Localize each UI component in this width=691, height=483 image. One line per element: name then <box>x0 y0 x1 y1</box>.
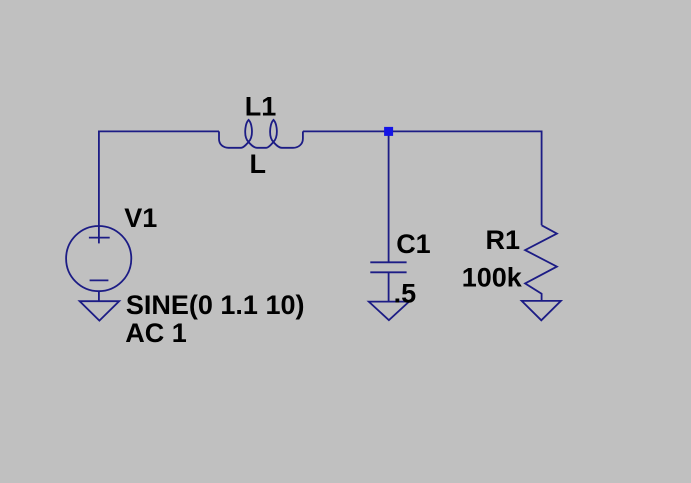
wire capacitor bottom <box>388 272 390 301</box>
svg-text:.5: .5 <box>394 279 417 309</box>
wire top right horizontal <box>303 131 542 225</box>
inductor L1 <box>219 120 303 148</box>
svg-text:L1: L1 <box>245 92 277 122</box>
voltage source V1 circle <box>66 226 131 291</box>
V1 plus sign <box>89 237 110 239</box>
svg-text:R1: R1 <box>486 225 521 255</box>
ground under R1 <box>522 301 561 320</box>
svg-text:L: L <box>250 149 267 179</box>
svg-text:V1: V1 <box>124 203 157 233</box>
node junction square <box>384 127 393 136</box>
resistor R1 zigzag <box>525 225 557 301</box>
svg-text:SINE(0 1.1 10): SINE(0 1.1 10) <box>126 290 305 320</box>
svg-text:C1: C1 <box>396 229 431 259</box>
V1 minus sign <box>90 279 109 281</box>
ground under V1 <box>80 301 120 320</box>
wire left vertical + V1 top pin <box>98 131 100 243</box>
capacitor C1 plates <box>370 261 406 263</box>
V1 bottom stub wire <box>98 291 100 301</box>
svg-text:100k: 100k <box>462 262 523 292</box>
wire capacitor top <box>388 131 390 262</box>
wire top left horizontal <box>98 130 219 132</box>
ground under C1 <box>369 302 409 321</box>
svg-text:AC 1: AC 1 <box>125 318 187 348</box>
